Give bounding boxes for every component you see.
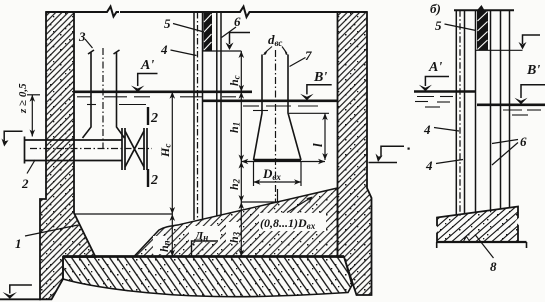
svg-text:А': А' <box>140 58 154 73</box>
svg-text:3: 3 <box>78 29 86 44</box>
svg-text:l: l <box>310 143 325 147</box>
svg-text:2: 2 <box>150 111 158 126</box>
svg-text:4: 4 <box>425 158 433 173</box>
svg-text:В': В' <box>313 70 327 85</box>
svg-text:2: 2 <box>150 173 158 188</box>
svg-text:1: 1 <box>15 236 22 251</box>
svg-text:2: 2 <box>21 176 29 191</box>
svg-text:б): б) <box>430 1 441 16</box>
svg-text:6: 6 <box>234 14 241 29</box>
svg-text:7: 7 <box>305 48 312 63</box>
svg-text:8: 8 <box>490 259 497 274</box>
svg-text:z ≥ 0,5: z ≥ 0,5 <box>17 83 29 114</box>
svg-text:А': А' <box>428 60 442 75</box>
svg-text:4: 4 <box>160 42 168 57</box>
svg-text:4: 4 <box>423 122 431 137</box>
svg-text:5: 5 <box>164 16 171 31</box>
svg-text:5: 5 <box>435 18 442 33</box>
svg-text:6: 6 <box>520 134 527 149</box>
svg-text:В': В' <box>526 63 540 78</box>
